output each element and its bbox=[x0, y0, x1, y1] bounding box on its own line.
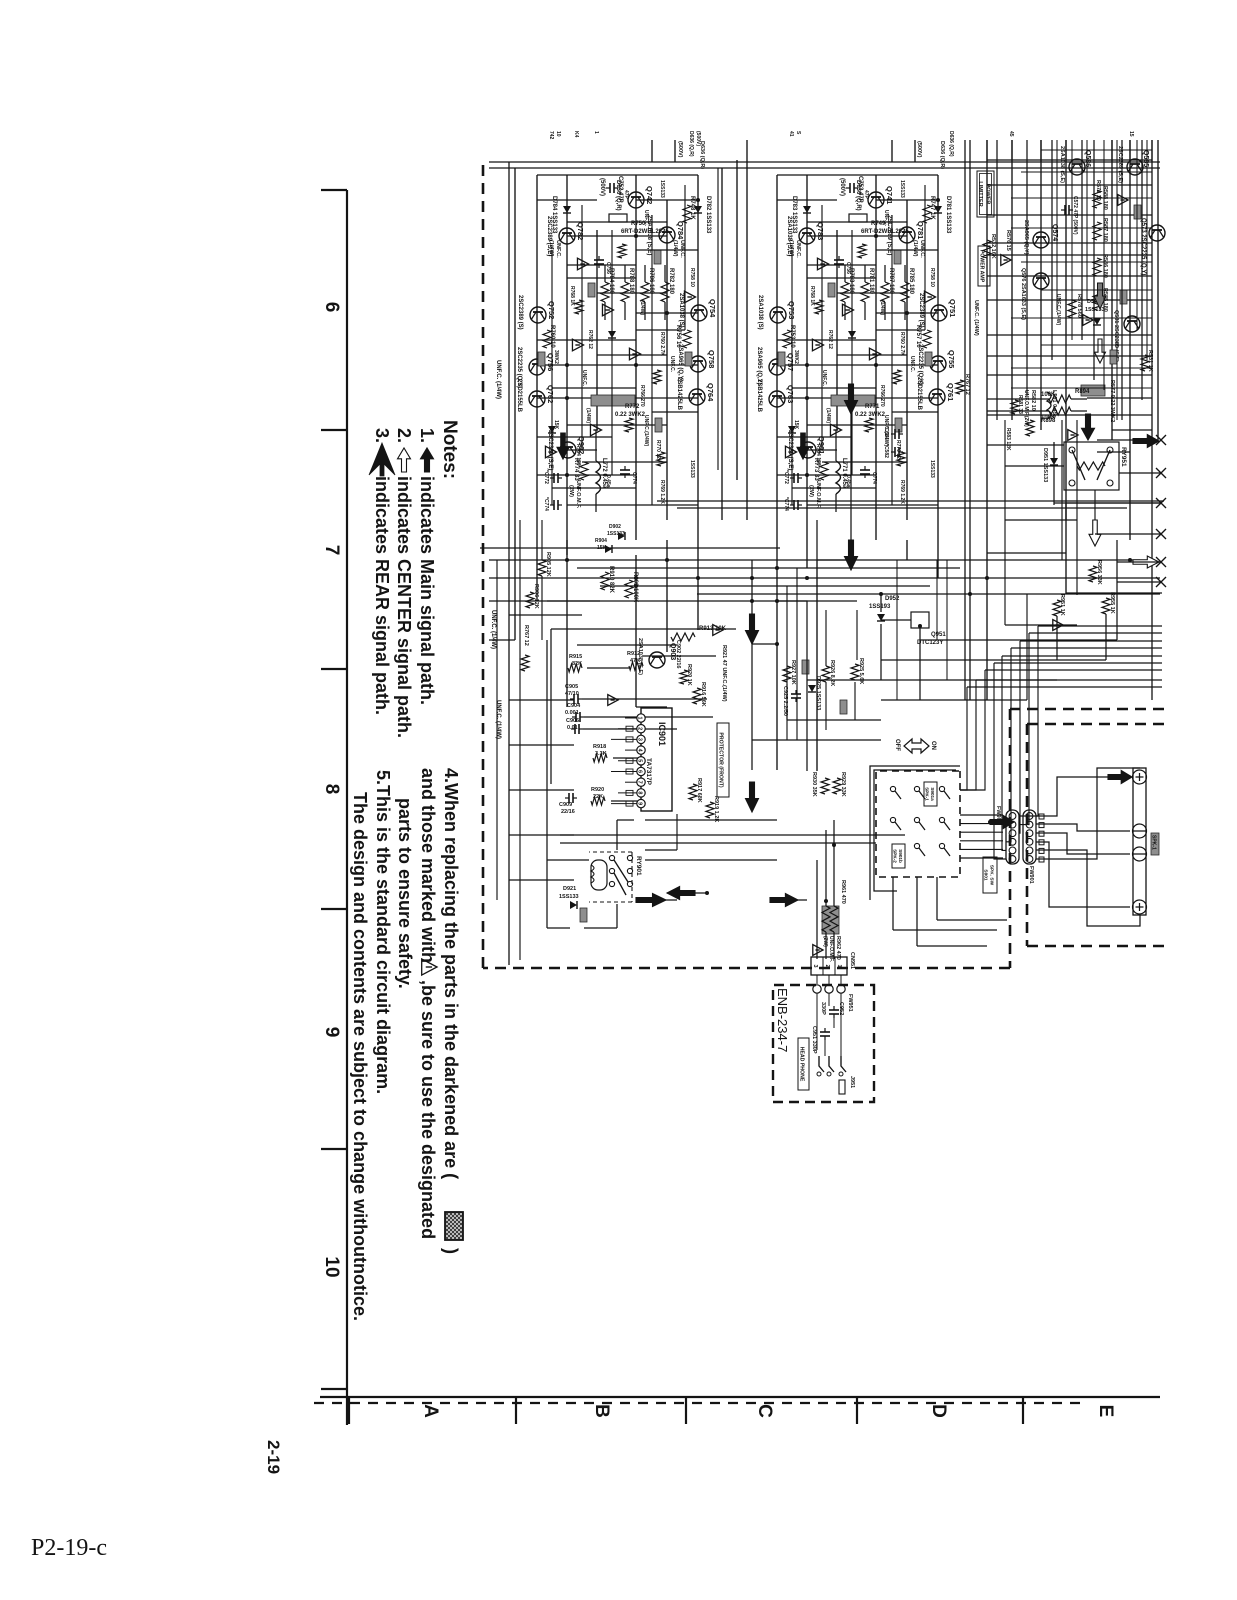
main signal path arrow (up) bbox=[636, 894, 666, 907]
wire bbox=[833, 1018, 835, 1028]
boxed label POWER LIMITTER bbox=[977, 171, 994, 217]
wire bbox=[987, 214, 1152, 216]
switch S901 lever bbox=[944, 791, 950, 799]
svg-text:R768 1K: R768 1K bbox=[809, 286, 815, 306]
resistor R782 bbox=[661, 282, 669, 302]
svg-text:7: 7 bbox=[637, 781, 643, 784]
svg-text:R787 180: R787 180 bbox=[888, 268, 894, 295]
headphone jack contact dot bbox=[817, 1072, 821, 1076]
svg-text:15K: 15K bbox=[597, 545, 607, 551]
junction bbox=[918, 624, 922, 628]
wire bbox=[611, 738, 637, 740]
wire bbox=[587, 667, 629, 669]
junction bbox=[775, 599, 779, 603]
junction bbox=[874, 234, 878, 238]
capacitor #C772 bbox=[550, 473, 562, 483]
safety warning triangle bbox=[590, 424, 601, 436]
switch S901 lever bbox=[919, 848, 925, 856]
terminal screw cross bbox=[1139, 773, 1141, 781]
svg-text:C572 47P (500V): C572 47P (500V) bbox=[1072, 196, 1078, 235]
wire bbox=[825, 932, 827, 959]
svg-text:R760 2.7K: R760 2.7K bbox=[659, 332, 665, 356]
connector FW901 pin bbox=[1009, 838, 1016, 845]
relay RY901 contact bbox=[627, 855, 632, 860]
warning triangle icon bbox=[422, 959, 437, 975]
wire bbox=[1117, 581, 1161, 583]
svg-text:1SS133: 1SS133 bbox=[1085, 307, 1105, 313]
rail wire bbox=[1157, 140, 1159, 440]
capacitor C753 47P bbox=[846, 183, 858, 193]
inter-block bus wire bbox=[964, 140, 966, 700]
svg-text:UNF.C. (1/4W): UNF.C. (1/4W) bbox=[973, 300, 979, 336]
shaded part tag bbox=[1134, 205, 1141, 219]
svg-text:(1/4W): (1/4W) bbox=[585, 408, 591, 423]
diode D921 1SS133 bbox=[570, 901, 577, 909]
rail wire bbox=[666, 200, 668, 520]
svg-text:R906 12K: R906 12K bbox=[533, 584, 539, 609]
ic pin pad bbox=[626, 801, 633, 806]
safety warning triangle bbox=[842, 304, 853, 316]
resistor R929 bbox=[833, 778, 841, 794]
relay RY951 box bbox=[1064, 442, 1119, 490]
wire bbox=[864, 302, 866, 320]
resistor R753 bbox=[783, 330, 791, 348]
cut mark bbox=[1156, 529, 1166, 539]
wire bbox=[1005, 519, 1077, 521]
terminal screw cross bbox=[1136, 776, 1144, 778]
svg-text:Q781: Q781 bbox=[916, 221, 925, 239]
svg-text:C906: C906 bbox=[566, 718, 579, 724]
junction bbox=[936, 198, 940, 202]
wire bbox=[937, 919, 1007, 921]
junction bbox=[1128, 558, 1132, 562]
junction bbox=[665, 311, 669, 315]
svg-text:6: 6 bbox=[321, 302, 342, 313]
capacitor #C774 bbox=[790, 500, 802, 510]
resistor R915 bbox=[568, 664, 582, 672]
power limiter inner frame bbox=[980, 174, 992, 215]
svg-text:1SS133: 1SS133 bbox=[929, 460, 935, 478]
svg-text:indicates CENTER signal path.: indicates CENTER signal path. bbox=[394, 476, 414, 738]
wire bbox=[541, 520, 543, 560]
ic pin pad bbox=[626, 737, 633, 742]
speaker bus wire bbox=[1029, 632, 1162, 634]
svg-text:22/16: 22/16 bbox=[561, 809, 575, 815]
diode bbox=[848, 331, 856, 338]
svg-text:D781 1SS133: D781 1SS133 bbox=[945, 196, 951, 234]
wire bbox=[1041, 289, 1152, 291]
transistor Q758 bbox=[690, 356, 706, 372]
headphone jack J951 contacts bbox=[819, 1056, 824, 1072]
wire bbox=[560, 834, 905, 836]
main signal path arrow (up) bbox=[770, 894, 798, 907]
transistor Q784 bbox=[659, 227, 675, 243]
wire bbox=[597, 292, 667, 294]
wire bbox=[583, 728, 677, 730]
svg-text:,be sure to use the designated: ,be sure to use the designated bbox=[418, 980, 438, 1239]
wire bbox=[791, 250, 793, 505]
resistor R587 bbox=[1093, 222, 1101, 240]
svg-text:(500V): (500V) bbox=[599, 178, 605, 196]
svg-text:(2W): (2W) bbox=[808, 485, 814, 497]
terminal screw cross bbox=[1139, 903, 1141, 911]
svg-text:*C774: *C774 bbox=[783, 497, 789, 511]
svg-text:R577 0.22 3WK2: R577 0.22 3WK2 bbox=[1109, 380, 1115, 422]
rail wire bbox=[1004, 420, 1006, 625]
connector FW901 pin bbox=[1026, 813, 1033, 820]
svg-text:R904: R904 bbox=[595, 538, 607, 544]
wire bbox=[751, 560, 753, 770]
resistor R905 bbox=[538, 560, 546, 576]
wire bbox=[891, 215, 893, 505]
svg-text:D783 1SS133: D783 1SS133 bbox=[791, 196, 797, 234]
edge stub wire bbox=[1065, 140, 1067, 162]
resistor R788 bbox=[621, 282, 629, 302]
svg-text:PROTECTOR (FRONT): PROTECTOR (FRONT) bbox=[718, 732, 724, 788]
rail wire bbox=[906, 540, 908, 560]
wire bbox=[644, 302, 646, 320]
wire bbox=[651, 140, 653, 162]
main signal path arrow (down) bbox=[667, 887, 695, 900]
rail wire bbox=[1061, 420, 1063, 560]
svg-text:R767 12: R767 12 bbox=[523, 625, 529, 646]
svg-text:3: 3 bbox=[637, 738, 643, 741]
svg-text:The design and contents are su: The design and contents are subject to c… bbox=[350, 792, 370, 1321]
svg-text:2.: 2. bbox=[394, 428, 414, 443]
svg-text:D: D bbox=[928, 1404, 949, 1418]
inductor L771 bbox=[836, 461, 841, 494]
transistor Q902 bbox=[560, 442, 576, 458]
svg-text:1SS193: 1SS193 bbox=[869, 604, 891, 610]
speaker bus wire bbox=[985, 669, 1162, 671]
switch to connector wire bbox=[960, 857, 1003, 859]
resistor R906 bbox=[526, 592, 534, 608]
rail wire bbox=[1026, 594, 1028, 700]
transistor Q741 bbox=[868, 192, 884, 208]
resistor R531 bbox=[1141, 355, 1149, 371]
svg-text:R532 16K: R532 16K bbox=[990, 234, 996, 259]
wire bbox=[786, 684, 788, 740]
main signal path arrow (up) bbox=[990, 816, 1014, 829]
main signal path arrow bbox=[1082, 414, 1095, 440]
svg-text:R782 180: R782 180 bbox=[668, 268, 674, 295]
svg-text:R905 12K: R905 12K bbox=[545, 552, 551, 577]
speaker feed wire bbox=[1019, 633, 1029, 825]
switch S901 contact bbox=[939, 817, 944, 822]
svg-text:4.When replacing the parts in: 4.When replacing the parts in the darken… bbox=[441, 768, 461, 1179]
wire bbox=[807, 277, 876, 279]
svg-text:R772: R772 bbox=[625, 404, 640, 410]
transistor Q757 bbox=[769, 359, 785, 375]
wire bbox=[876, 312, 938, 314]
supply bus wire bbox=[489, 167, 1160, 169]
resistor R910 bbox=[601, 572, 609, 590]
wire bbox=[645, 819, 777, 821]
transistor Q752 bbox=[530, 307, 546, 323]
resistor R920 bbox=[591, 797, 605, 805]
transistor Q585 bbox=[1127, 159, 1143, 175]
connector FW951 pin bbox=[813, 985, 821, 993]
main signal path arrow bbox=[746, 614, 759, 644]
svg-text:1SS133: 1SS133 bbox=[607, 531, 625, 537]
svg-text:3WK2: 3WK2 bbox=[793, 350, 799, 364]
svg-text:Q742: Q742 bbox=[645, 186, 654, 204]
transistor Q576 bbox=[1033, 273, 1049, 289]
wire bbox=[893, 929, 997, 931]
wire bbox=[904, 302, 906, 320]
wire bbox=[851, 230, 853, 475]
wire bbox=[777, 199, 837, 201]
svg-text:47P: 47P bbox=[623, 190, 629, 200]
safety warning triangle bbox=[713, 625, 723, 636]
resistor R909 bbox=[625, 580, 633, 598]
safety warning triangle bbox=[1083, 315, 1093, 326]
resistor R767 bbox=[521, 655, 529, 671]
wire bbox=[624, 302, 626, 320]
svg-text:R917 68K: R917 68K bbox=[696, 778, 702, 803]
resistor R913 bbox=[671, 633, 695, 641]
wire bbox=[920, 659, 947, 661]
diode D782 1SS133 bbox=[694, 206, 702, 213]
wire bbox=[519, 520, 521, 960]
darkened resistor pair backdrop bbox=[822, 906, 839, 934]
wire bbox=[636, 249, 698, 251]
switch S901 lever bbox=[895, 791, 901, 799]
ic pin pad bbox=[626, 758, 633, 763]
wire bbox=[1056, 616, 1058, 660]
connector CN951 box bbox=[811, 957, 847, 975]
wire bbox=[987, 184, 1152, 186]
resistor bbox=[657, 452, 665, 466]
resistor R784 bbox=[601, 282, 609, 302]
ic pin 7 bbox=[637, 778, 645, 786]
diode bbox=[608, 331, 616, 338]
wire bbox=[537, 364, 698, 366]
capacitor C951 330P bbox=[820, 1028, 830, 1040]
svg-text:9: 9 bbox=[321, 1027, 342, 1038]
shaded label SPK-1 bbox=[1151, 833, 1159, 855]
junction bbox=[988, 820, 992, 824]
grid ruler vertical line bbox=[320, 1396, 1160, 1398]
wire bbox=[786, 586, 788, 720]
ic pin pad bbox=[626, 726, 633, 731]
transistor Q761 bbox=[929, 389, 945, 405]
wire bbox=[920, 639, 1117, 641]
svg-text:UNF.C.: UNF.C. bbox=[555, 240, 561, 258]
speaker bus wire bbox=[1011, 647, 1162, 649]
svg-text:SPK-2: SPK-2 bbox=[892, 849, 897, 863]
wire bbox=[1011, 317, 1152, 319]
svg-text:15: 15 bbox=[1128, 131, 1134, 137]
wire bbox=[552, 387, 636, 389]
shaded part tag bbox=[1110, 350, 1117, 364]
svg-text:R583 12K: R583 12K bbox=[1005, 428, 1011, 451]
grid ruler tick bbox=[321, 429, 347, 431]
wire bbox=[987, 254, 1152, 256]
wire bbox=[892, 877, 894, 930]
svg-text:(1/4W): (1/4W) bbox=[672, 240, 678, 257]
svg-text:8: 8 bbox=[637, 791, 643, 794]
svg-text:*C581: *C581 bbox=[883, 426, 889, 440]
capacitor C572 47P bbox=[1061, 205, 1073, 215]
wire bbox=[509, 699, 574, 701]
speaker wire bbox=[1036, 842, 1130, 907]
svg-text:C905: C905 bbox=[565, 684, 578, 690]
svg-text:Q741: Q741 bbox=[885, 186, 894, 204]
svg-text:R956 33K: R956 33K bbox=[1096, 560, 1102, 585]
junction bbox=[634, 363, 638, 367]
speaker feed wire bbox=[994, 663, 1006, 859]
junction bbox=[634, 584, 638, 588]
svg-text:J951: J951 bbox=[849, 1076, 855, 1088]
wire bbox=[840, 993, 842, 1056]
junction bbox=[874, 363, 878, 367]
connector pin square bbox=[1039, 823, 1044, 828]
svg-text:R910 82K: R910 82K bbox=[608, 566, 614, 594]
svg-text:R788 180: R788 180 bbox=[628, 268, 634, 295]
junction bbox=[849, 558, 853, 562]
capacitor C952 330P bbox=[829, 1006, 839, 1018]
main signal path arrow bbox=[557, 433, 569, 459]
svg-text:UNF.O.M.F.(2W): UNF.O.M.F.(2W) bbox=[1023, 390, 1029, 427]
wire bbox=[496, 560, 498, 900]
wire bbox=[816, 975, 818, 984]
speaker block dashed border left bbox=[1027, 723, 1164, 726]
resistor R747 bbox=[923, 205, 931, 223]
wire bbox=[796, 568, 798, 740]
wire bbox=[509, 789, 574, 791]
inductor L591 bbox=[1047, 392, 1051, 419]
safety warning triangle bbox=[813, 945, 823, 956]
wire bbox=[777, 174, 938, 176]
junction bbox=[824, 899, 828, 903]
wire bbox=[807, 221, 907, 223]
resistor bbox=[865, 418, 873, 432]
cut mark bbox=[1156, 557, 1166, 567]
svg-text:3WK2: 3WK2 bbox=[553, 350, 559, 364]
fold edge dashed line bbox=[310, 1402, 1080, 1404]
main signal path arrow bbox=[797, 433, 809, 459]
wire bbox=[636, 312, 698, 314]
rail wire bbox=[1146, 140, 1148, 360]
svg-text:2SA1038 (S,E): 2SA1038 (S,E) bbox=[1059, 146, 1065, 183]
wire bbox=[884, 302, 886, 320]
grid ruler tick bbox=[321, 908, 347, 910]
resistor R748 bbox=[683, 205, 691, 223]
wire bbox=[537, 436, 612, 438]
grid ruler tick bbox=[321, 189, 347, 191]
wire bbox=[850, 384, 852, 560]
svg-text:9: 9 bbox=[637, 802, 643, 805]
svg-text:D636 (Q,R): D636 (Q,R) bbox=[948, 131, 954, 157]
headphone jack J951 contacts bbox=[841, 1056, 846, 1072]
svg-text:10: 10 bbox=[321, 1256, 342, 1277]
rail wire bbox=[1051, 140, 1053, 360]
wire bbox=[917, 945, 987, 947]
wire bbox=[1119, 472, 1161, 474]
resistor R783 bbox=[841, 282, 849, 302]
svg-text:R919 1.2K: R919 1.2K bbox=[713, 796, 719, 822]
wire bbox=[1054, 502, 1161, 504]
speaker wire bbox=[1036, 768, 1140, 859]
svg-text:R921 47 UNF.C.(1/4W): R921 47 UNF.C.(1/4W) bbox=[721, 645, 727, 702]
svg-text:C: C bbox=[754, 1404, 775, 1418]
capacitor #C772 bbox=[790, 473, 802, 483]
wire bbox=[489, 639, 515, 641]
rail wire bbox=[986, 140, 988, 700]
relay RY951 contact bbox=[1107, 480, 1113, 486]
main signal path arrow bbox=[746, 782, 759, 812]
resistor bbox=[893, 370, 901, 384]
safety warning triangle bbox=[924, 291, 935, 303]
svg-text:82K: 82K bbox=[572, 661, 582, 667]
mid vertical bus wire bbox=[697, 593, 1160, 595]
wire bbox=[1005, 465, 1064, 467]
speaker bus wire bbox=[967, 686, 1162, 688]
cut mark bbox=[1156, 468, 1166, 478]
wire bbox=[792, 487, 876, 489]
wire bbox=[509, 879, 574, 881]
resistor R927 bbox=[783, 666, 791, 682]
main signal path arrow bbox=[845, 540, 858, 570]
wire bbox=[835, 494, 837, 512]
wire bbox=[881, 659, 1106, 661]
wire bbox=[1116, 540, 1118, 640]
junction bbox=[832, 843, 836, 847]
resistor R955 bbox=[1102, 598, 1110, 614]
fusible resistor R749 bbox=[849, 214, 867, 222]
center path outline arrow bbox=[1089, 520, 1101, 546]
svg-text:5: 5 bbox=[637, 759, 643, 762]
rail wire bbox=[937, 555, 939, 578]
edge stub wire bbox=[1040, 140, 1042, 162]
wire bbox=[777, 339, 876, 341]
grid ruler tick bbox=[515, 1397, 517, 1424]
capacitor C752 47P bbox=[606, 183, 618, 193]
capacitor C582 bbox=[891, 447, 903, 457]
switch S901 contact bbox=[914, 786, 919, 791]
svg-text:(2W): (2W) bbox=[568, 485, 574, 497]
rail wire bbox=[596, 230, 598, 430]
ic IC901 body bbox=[641, 708, 672, 811]
svg-text:Q751: Q751 bbox=[948, 299, 957, 317]
rail wire bbox=[536, 540, 538, 600]
wire bbox=[896, 560, 898, 700]
transistor Q764 bbox=[689, 389, 705, 405]
resistor bbox=[618, 244, 626, 258]
grid ruler tick bbox=[348, 1397, 350, 1424]
rail wire bbox=[635, 175, 637, 540]
grid ruler tick bbox=[685, 1397, 687, 1424]
wire bbox=[577, 644, 677, 646]
junction bbox=[805, 363, 809, 367]
schematic dashed border right lower bbox=[483, 967, 1010, 970]
wire bbox=[1097, 439, 1152, 441]
svg-text:2SA965 (Q,Y): 2SA965 (Q,Y) bbox=[1023, 220, 1029, 255]
mid vertical bus wire bbox=[600, 585, 930, 587]
rail wire bbox=[1151, 140, 1153, 700]
svg-text:UNF.C.: UNF.C. bbox=[669, 356, 675, 373]
svg-text:R786 180: R786 180 bbox=[648, 268, 654, 295]
svg-text:7: 7 bbox=[321, 545, 342, 556]
svg-text:2SD2155LB: 2SD2155LB bbox=[516, 379, 522, 413]
transistor Q903 bbox=[649, 652, 665, 668]
svg-text:R762 12: R762 12 bbox=[587, 330, 593, 349]
rail wire bbox=[1081, 140, 1083, 340]
svg-text:K4: K4 bbox=[573, 131, 579, 138]
resistor R926 bbox=[822, 666, 830, 682]
svg-text:R916 56K: R916 56K bbox=[700, 682, 706, 707]
